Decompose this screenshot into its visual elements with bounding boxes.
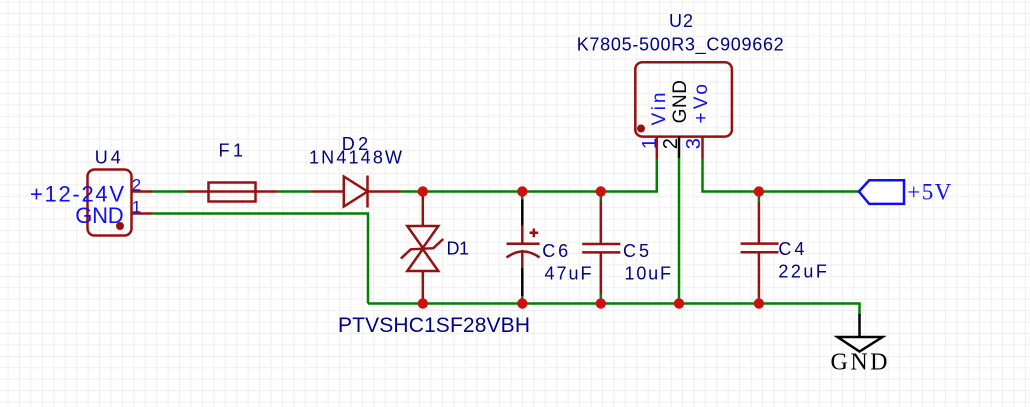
svg-text:1: 1 (639, 138, 661, 149)
svg-text:22uF: 22uF (778, 262, 827, 282)
svg-text:1: 1 (132, 197, 141, 216)
svg-text:+5V: +5V (907, 180, 951, 205)
svg-text:+Vo: +Vo (691, 84, 712, 124)
svg-text:D1: D1 (447, 239, 470, 259)
svg-text:2: 2 (132, 175, 141, 194)
svg-text:2: 2 (660, 138, 682, 149)
svg-text:GND: GND (670, 80, 691, 123)
svg-text:GND: GND (75, 203, 123, 228)
svg-text:GND: GND (831, 349, 888, 375)
svg-text:C6: C6 (542, 241, 568, 261)
svg-text:47uF: 47uF (545, 263, 592, 283)
svg-text:Vin: Vin (649, 93, 670, 126)
svg-text:1N4148W: 1N4148W (309, 148, 402, 168)
svg-text:PTVSHC1SF28VBH: PTVSHC1SF28VBH (338, 314, 530, 337)
svg-text:K7805-500R3_C909662: K7805-500R3_C909662 (577, 35, 784, 56)
svg-text:U2: U2 (669, 11, 693, 31)
svg-text:U4: U4 (95, 147, 121, 167)
svg-text:C4: C4 (778, 239, 804, 259)
svg-text:10uF: 10uF (625, 263, 672, 283)
svg-text:3: 3 (683, 138, 705, 149)
